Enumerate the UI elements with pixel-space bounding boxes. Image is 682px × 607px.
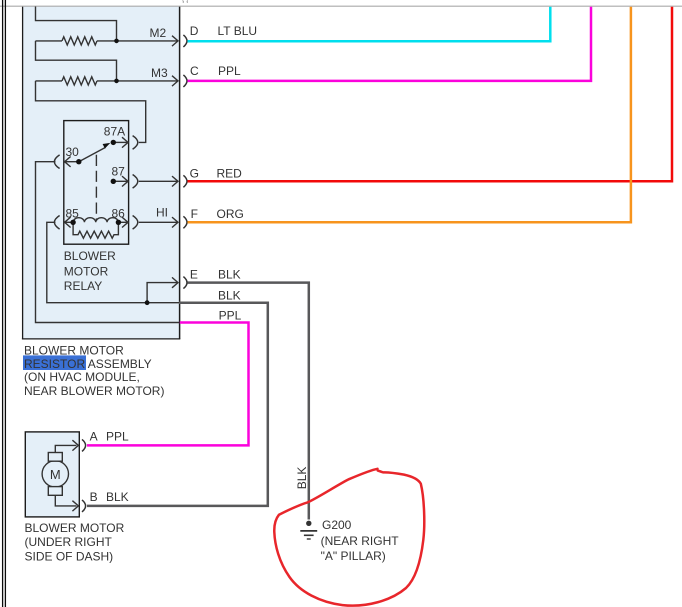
svg-text:B: B xyxy=(90,490,98,504)
svg-text:(NEAR RIGHT: (NEAR RIGHT xyxy=(321,534,400,548)
svg-text:MOTOR: MOTOR xyxy=(64,265,109,279)
svg-text:PPL: PPL xyxy=(218,64,241,78)
svg-text:BLOWER MOTOR: BLOWER MOTOR xyxy=(25,521,125,535)
svg-text:A: A xyxy=(90,430,98,444)
svg-text:SIDE OF DASH): SIDE OF DASH) xyxy=(25,549,114,563)
svg-text:C: C xyxy=(190,64,199,78)
svg-text:HI: HI xyxy=(156,206,168,220)
svg-text:RELAY: RELAY xyxy=(64,279,102,293)
svg-text:M3: M3 xyxy=(151,66,168,80)
svg-text:RED: RED xyxy=(217,166,243,180)
svg-text:NEAR BLOWER MOTOR): NEAR BLOWER MOTOR) xyxy=(24,384,164,398)
svg-text:"A" PILLAR): "A" PILLAR) xyxy=(321,549,386,563)
svg-text:ORG: ORG xyxy=(217,207,244,221)
svg-text:G200: G200 xyxy=(322,518,352,532)
svg-text:LT BLU: LT BLU xyxy=(218,24,258,38)
svg-text:(ON HVAC MODULE,: (ON HVAC MODULE, xyxy=(24,370,140,384)
svg-text:BLK: BLK xyxy=(295,467,309,490)
svg-text:BLOWER: BLOWER xyxy=(64,249,116,263)
svg-text:G: G xyxy=(190,166,199,180)
svg-text:BLK: BLK xyxy=(218,268,241,282)
svg-text:30: 30 xyxy=(66,145,80,159)
svg-text:BLK: BLK xyxy=(106,490,129,504)
svg-text:87: 87 xyxy=(112,164,126,178)
svg-text:BLK: BLK xyxy=(218,289,241,303)
svg-text:M: M xyxy=(50,467,61,482)
svg-text:85: 85 xyxy=(66,207,80,221)
svg-text:PPL: PPL xyxy=(106,430,129,444)
svg-text:(UNDER RIGHT: (UNDER RIGHT xyxy=(25,535,113,549)
svg-text:87A: 87A xyxy=(104,125,125,139)
svg-text:RESISTOR ASSEMBLY: RESISTOR ASSEMBLY xyxy=(24,357,152,371)
svg-text:E: E xyxy=(190,268,198,282)
svg-text:BLOWER MOTOR: BLOWER MOTOR xyxy=(24,343,124,357)
svg-text:M2: M2 xyxy=(150,26,167,40)
svg-text:D: D xyxy=(190,24,199,38)
svg-text:F: F xyxy=(191,207,198,221)
svg-text:PPL: PPL xyxy=(219,308,242,322)
svg-text:86: 86 xyxy=(112,207,126,221)
